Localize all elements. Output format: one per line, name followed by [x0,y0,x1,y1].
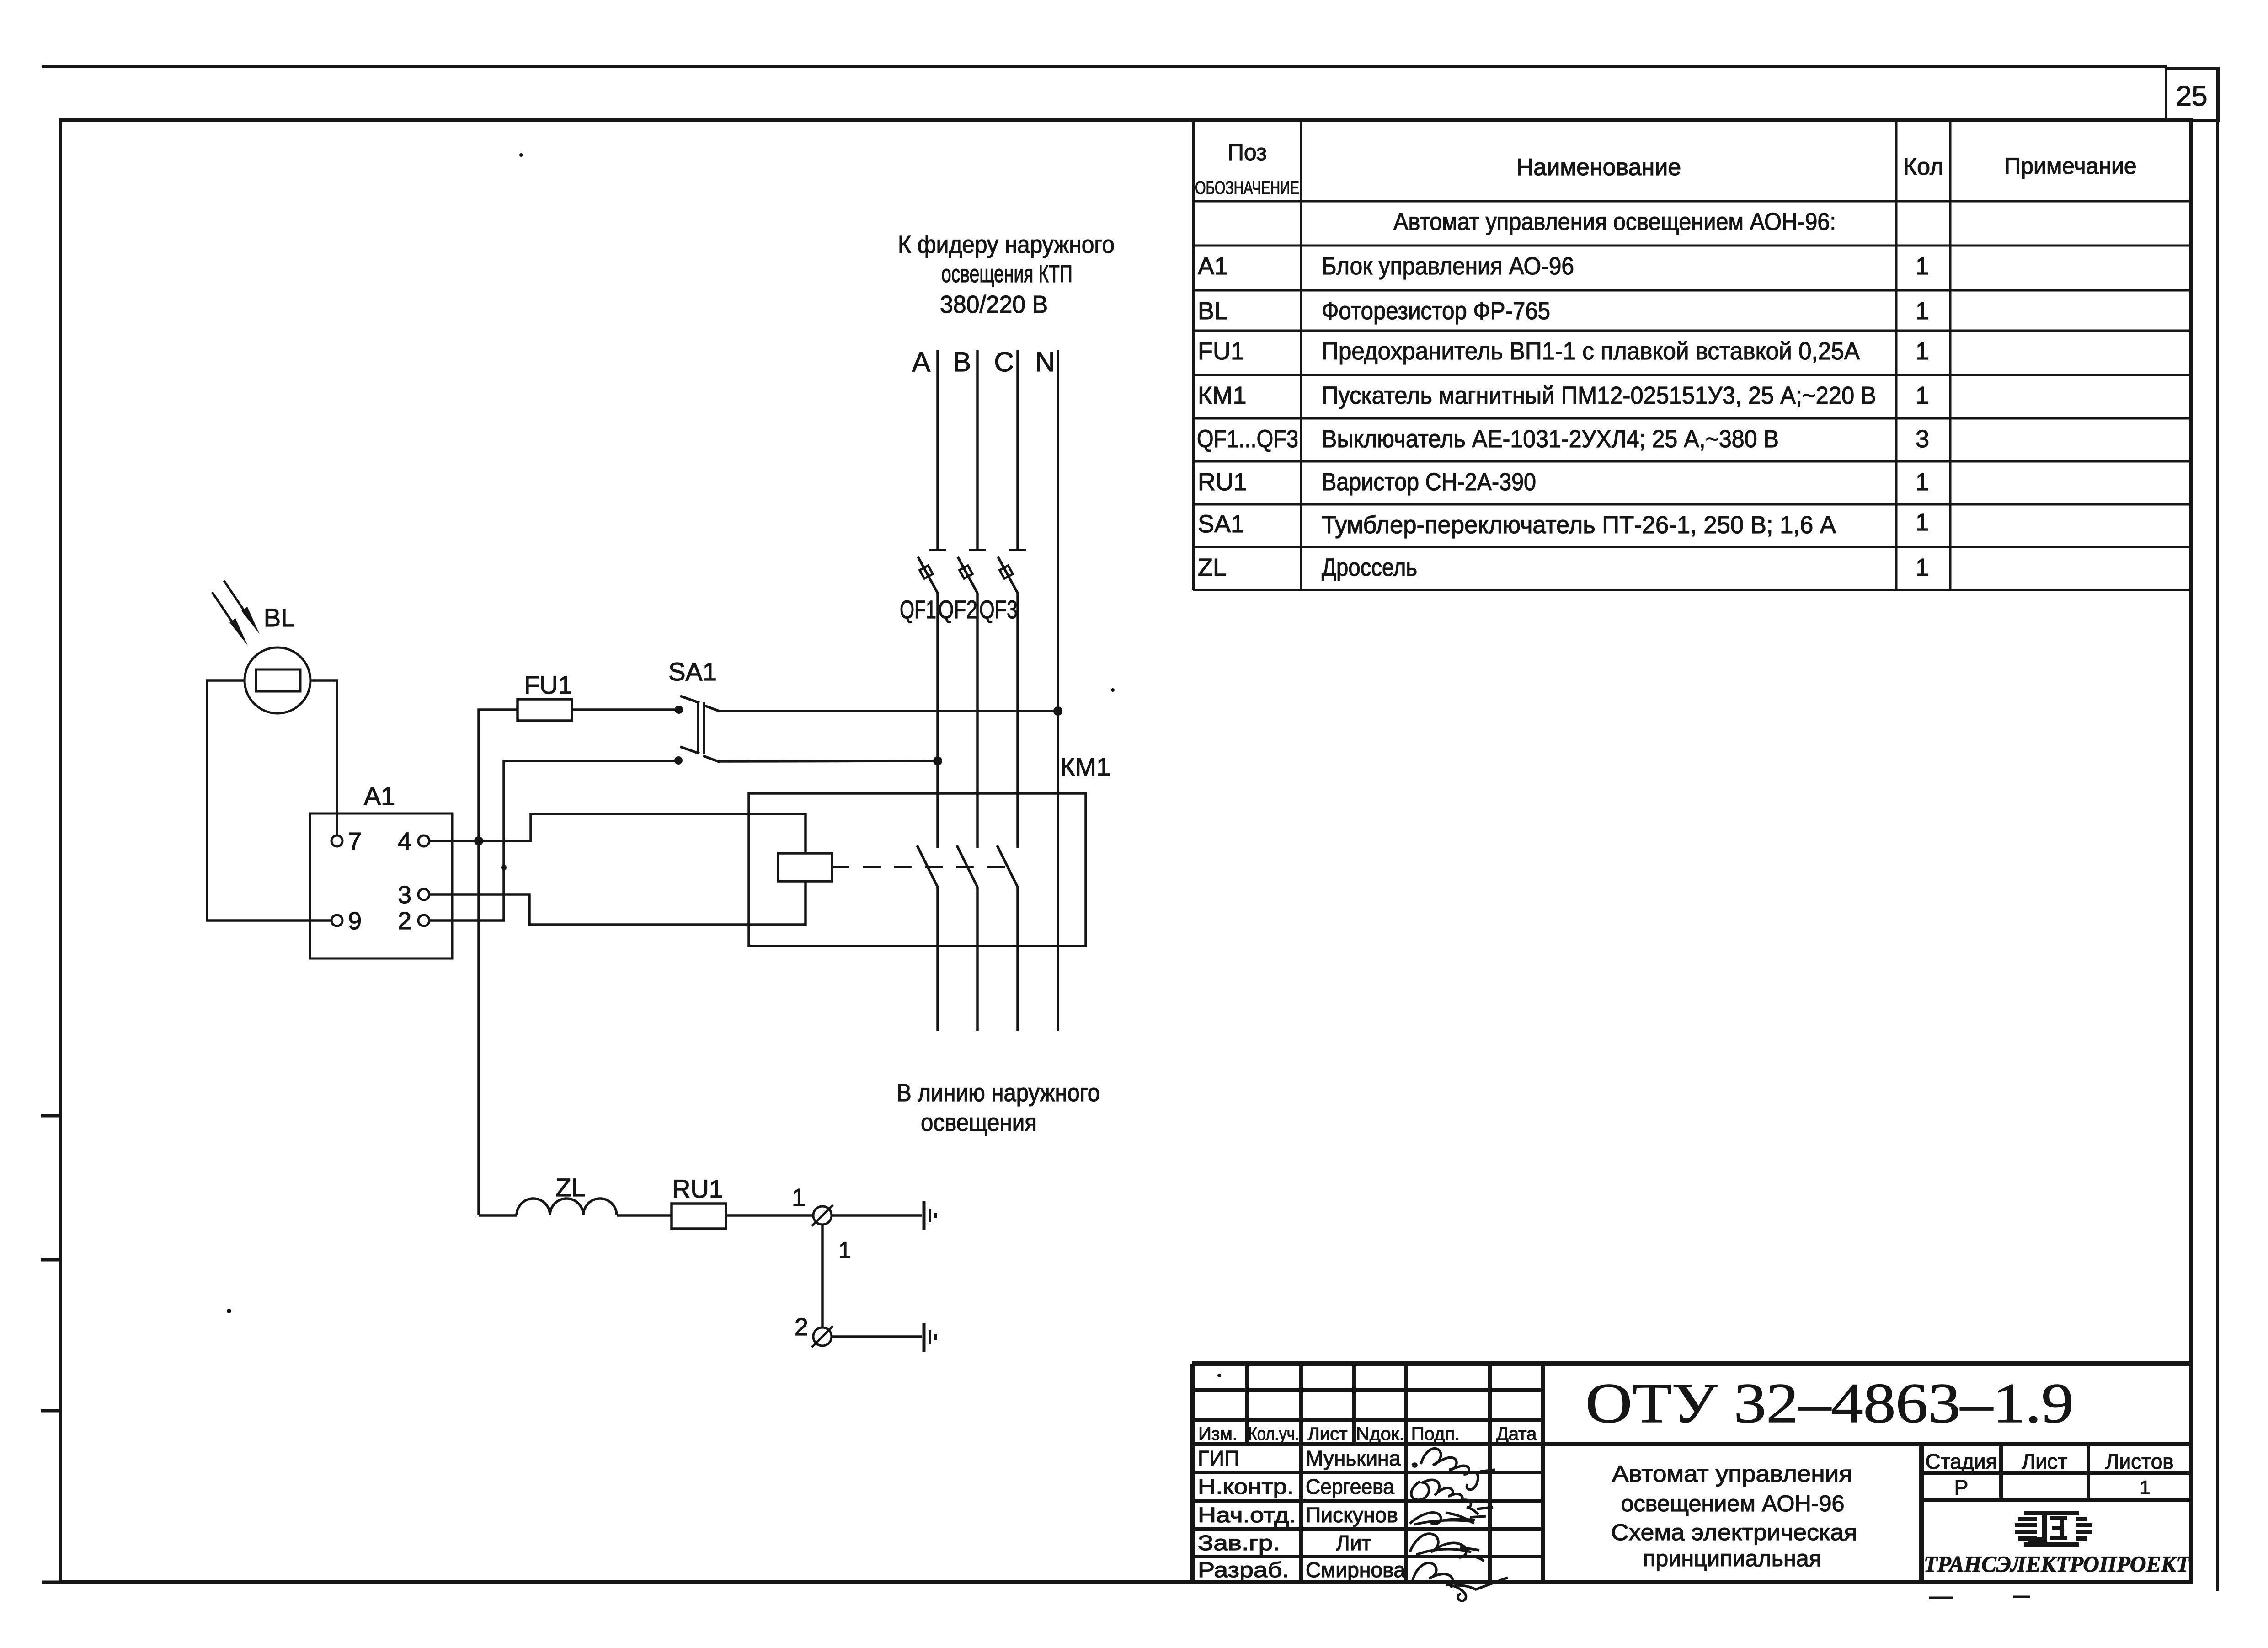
svg-text:Выключатель АЕ-1031-2УХЛ4; 25: Выключатель АЕ-1031-2УХЛ4; 25 А,~380 В [1322,425,1779,453]
contactor KM1 box [749,752,1110,946]
svg-text:Автомат управления: Автомат управления [1612,1461,1852,1487]
svg-text:Лит: Лит [1336,1531,1371,1555]
wire RU1 to terminal 1 [726,1214,813,1217]
document number ОТУ 32-4863-1.9 [1585,1372,2074,1434]
wire pin 4 to junction and KM1 coil top [429,814,806,853]
pin 4 [398,828,429,855]
wire phase C [1016,350,1019,1031]
svg-text:принципиальная: принципиальная [1643,1546,1821,1571]
wire terminal 2 to ground [832,1335,922,1338]
node C label [994,347,1014,377]
pin 2 [398,907,429,935]
switch SA1 [668,657,720,765]
KM1 contact B [957,845,977,887]
svg-text:1: 1 [1916,508,1929,536]
terminal 1 [792,1184,833,1226]
svg-text:2: 2 [795,1313,808,1341]
wire pin 2 up to SA1 lower contact [429,761,677,920]
svg-text:Нач.отд.: Нач.отд. [1198,1503,1296,1527]
title block grid [1192,1364,2191,1583]
svg-text:1: 1 [1916,337,1929,365]
svg-text:Изм.: Изм. [1198,1424,1238,1444]
wire phase B [976,350,979,1031]
wire pin 3 to KM1 coil bottom [430,881,806,925]
varistor RU1 [672,1174,726,1229]
wire SA1 lower to phase A [719,761,938,761]
svg-text:Дата: Дата [1496,1424,1537,1444]
svg-text:Зав.гр.: Зав.гр. [1198,1531,1280,1555]
svg-text:Фоторезистор ФР-765: Фоторезистор ФР-765 [1322,297,1550,325]
svg-text:Предохранитель ВП1-1 с плавкой: Предохранитель ВП1-1 с плавкой вставкой … [1322,337,1860,365]
svg-text:Схема электрическая: Схема электрическая [1611,1520,1857,1545]
svg-text:RU1: RU1 [1198,468,1247,496]
ground 2 [924,1323,935,1352]
junction on phase A [933,756,942,765]
svg-text:Наименование: Наименование [1516,154,1681,181]
svg-text:FU1: FU1 [524,670,572,699]
wire FU1 left feed down to ZL [479,710,518,1215]
svg-text:QF1: QF1 [900,595,936,624]
wire SA1 upper to N [719,710,1058,712]
svg-text:В: В [953,347,971,377]
svg-text:1: 1 [792,1184,806,1211]
svg-text:1: 1 [1916,382,1929,409]
svg-text:Мунькина: Мунькина [1306,1446,1401,1470]
svg-text:ОТУ 32–4863–1.9: ОТУ 32–4863–1.9 [1585,1372,2074,1434]
svg-text:Н.контр.: Н.контр. [1198,1475,1294,1498]
svg-text:освещения: освещения [921,1109,1037,1136]
feeder label К фидеру наружного освещения КТП 380/220 В [898,231,1115,318]
wire BL right to pin 7 [310,680,337,835]
svg-text:В линию наружного: В линию наружного [897,1079,1100,1107]
logo TEP [2015,1511,2092,1547]
svg-text:Кол.уч.: Кол.уч. [1248,1424,1299,1444]
KM1 contact A [917,845,938,887]
inductor ZL [479,1173,617,1215]
svg-text:Дроссель: Дроссель [1322,554,1417,581]
node A label [912,347,930,377]
svg-text:3: 3 [1916,425,1929,453]
svg-text:ГИП: ГИП [1198,1446,1239,1470]
svg-text:Смирнова: Смирнова [1306,1558,1405,1582]
svg-text:BL: BL [264,603,295,632]
svg-text:Варистор СН-2А-390: Варистор СН-2А-390 [1322,468,1536,496]
svg-text:Примечание: Примечание [2004,153,2136,179]
svg-text:Разраб.: Разраб. [1198,1558,1289,1582]
svg-text:FU1: FU1 [1198,337,1244,365]
svg-text:1: 1 [2140,1477,2150,1498]
svg-text:ОБОЗНАЧЕНИЕ: ОБОЗНАЧЕНИЕ [1195,178,1299,198]
svg-text:RU1: RU1 [672,1174,723,1203]
svg-text:КМ1: КМ1 [1198,382,1246,409]
svg-text:А: А [912,347,930,377]
svg-text:А1: А1 [1198,252,1228,280]
junction on N line [1053,706,1062,716]
node B label [953,347,971,377]
load label В линию наружного освещения [897,1079,1100,1136]
KM1 coil-contact dashed link [832,866,1014,868]
wire ZL to RU1 [617,1214,672,1217]
label QF1 QF2 QF3 [900,595,1018,624]
svg-text:ZL: ZL [555,1173,585,1202]
svg-text:3: 3 [398,881,411,909]
svg-text:ТРАНСЭЛЕКТРОПРОЕКТ: ТРАНСЭЛЕКТРОПРОЕКТ [1924,1551,2191,1577]
svg-text:SA1: SA1 [1198,510,1244,538]
svg-text:7: 7 [348,828,362,855]
company name [1924,1551,2191,1577]
svg-text:Nдок.: Nдок. [1356,1424,1404,1444]
svg-text:380/220 В: 380/220 В [940,291,1048,318]
svg-text:BL: BL [1198,297,1228,325]
pin 9 [331,907,362,935]
svg-text:1: 1 [1916,252,1929,280]
svg-text:освещения КТП: освещения КТП [941,260,1073,288]
wire terminal 1 to ground [832,1214,922,1217]
svg-text:Автомат управления освещением: Автомат управления освещением АОН-96: [1393,208,1836,235]
svg-text:SA1: SA1 [668,657,717,686]
photoresistor BL [212,581,310,713]
svg-text:2: 2 [398,907,411,935]
svg-text:QF2: QF2 [938,595,977,624]
parts table grid [1193,120,2191,590]
signature rows [1198,1446,1405,1582]
wire terminal 1 to terminal 2 [822,1225,851,1327]
KM1 contact C [997,845,1018,887]
svg-text:N: N [1035,347,1055,377]
svg-text:9: 9 [348,907,362,935]
junction pin4/FU1 feed [474,836,483,845]
svg-text:Блок управления АО-96: Блок управления АО-96 [1322,252,1574,280]
svg-text:Поз: Поз [1227,139,1267,165]
svg-text:1: 1 [1916,468,1929,496]
breaker QF1 [918,550,946,593]
breaker QF3 [998,550,1026,593]
svg-text:Тумблер-переключатель ПТ-26-1,: Тумблер-переключатель ПТ-26-1, 250 В; 1,… [1322,511,1836,539]
svg-text:25: 25 [2176,80,2208,112]
revision table header [1198,1424,1537,1444]
svg-text:А1: А1 [364,781,395,810]
block A1 [310,781,452,958]
svg-text:QF1...QF3: QF1...QF3 [1197,425,1298,453]
node N label [1035,347,1055,377]
terminal 2 [795,1313,833,1347]
svg-text:1: 1 [838,1237,851,1263]
fuse FU1 [518,670,572,721]
contactor KM1 coil [778,853,832,881]
pin 7 [331,828,362,855]
svg-text:1: 1 [1916,297,1929,325]
svg-text:Лист: Лист [1308,1424,1348,1444]
svg-text:К фидеру наружного: К фидеру наружного [898,231,1115,258]
sheet number 25 [2166,68,2218,120]
svg-text:освещением АОН-96: освещением АОН-96 [1621,1491,1845,1516]
svg-text:ZL: ZL [1198,554,1227,581]
svg-text:Листов: Листов [2105,1450,2173,1473]
breaker QF2 [958,550,986,593]
svg-text:Лист: Лист [2022,1450,2067,1473]
parts table rows [1197,208,1929,581]
wire phase A [936,350,939,1031]
wire FU1 right to SA1 upper contact [572,708,677,711]
signature scribbles [1410,1449,1508,1601]
ground 1 [924,1201,935,1230]
svg-text:Кол: Кол [1903,154,1943,180]
pin 3 [398,881,429,909]
parts table header [1195,139,2137,198]
svg-text:1: 1 [1916,554,1929,581]
drawing title [1611,1461,1857,1571]
svg-text:Пискунов: Пискунов [1306,1503,1398,1527]
wire BL left to pin 9 [207,680,331,920]
svg-text:КМ1: КМ1 [1060,752,1110,781]
svg-text:QF3: QF3 [979,595,1018,624]
svg-text:Пускатель магнитный ПМ12-02515: Пускатель магнитный ПМ12-025151У3, 25 А;… [1322,382,1876,409]
svg-text:Подп.: Подп. [1411,1424,1460,1444]
stage sheet table [1921,1444,2191,1583]
svg-text:С: С [994,347,1014,377]
svg-text:Р: Р [1954,1476,1969,1499]
wire neutral N [1057,350,1059,1031]
svg-text:Стадия: Стадия [1926,1450,1997,1473]
svg-text:4: 4 [398,828,411,855]
svg-text:Сергеева: Сергеева [1306,1475,1394,1498]
